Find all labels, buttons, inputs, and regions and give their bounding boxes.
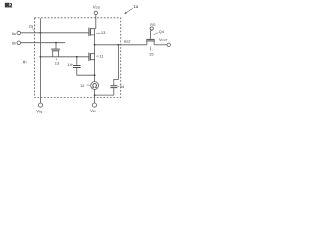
node dot Vbg/rail (40, 56, 42, 58)
svg-text:RG: RG (150, 23, 156, 27)
leader 2a (32, 28, 35, 31)
dashed box (amplifier block boundary) (35, 18, 121, 98)
wire VSS node to terminal (94, 95, 96, 103)
svg-text:15: 15 (149, 52, 154, 57)
leader+label 13 (upper right transistor) (96, 32, 100, 34)
svg-text:14: 14 (67, 62, 72, 67)
VOUT terminal (167, 43, 170, 46)
figure title 図2 (5, 3, 12, 7)
capacitor 34 bottom wire (95, 88, 114, 95)
transistor Q13 channel (89, 28, 91, 35)
svg-text:8b: 8b (12, 42, 16, 46)
RG terminal (150, 27, 153, 30)
output transistor 15: legs (147, 41, 154, 45)
leader+label 11 (96, 55, 99, 57)
arrow leader to label 1a (126, 8, 133, 13)
tilde + label 34 (118, 85, 120, 87)
mos capacitor 13: top plate (51, 48, 60, 50)
svg-text:13: 13 (55, 61, 60, 66)
output wire (net RST) (95, 44, 147, 46)
svg-text:11: 11 (100, 54, 105, 59)
svg-text:1a: 1a (134, 4, 139, 9)
Vbg vertical line (39, 18, 41, 103)
capacitor 14 plates (73, 66, 81, 68)
node dot feedback (118, 44, 120, 46)
mos capacitor 13: legs (53, 51, 59, 57)
wire current source to VSS node (94, 89, 96, 95)
transistor Q11 (lower right): gate bar (88, 53, 90, 61)
input terminal 8b (17, 41, 21, 45)
VDD terminal (94, 11, 97, 14)
node dot cap14 return (94, 74, 96, 76)
transistor Q11 channel (89, 53, 91, 60)
output transistor 15: gate bar (146, 38, 154, 40)
svg-text:RST: RST (124, 40, 131, 44)
node dot wire1/Vbg line (40, 32, 42, 34)
svg-text:Vss: Vss (90, 108, 96, 113)
wire VDD down to Q13 drain (95, 15, 96, 29)
leader for label 13 (55, 58, 57, 60)
svg-text:Vbg: Vbg (36, 109, 42, 114)
main vertical rail (94, 29, 96, 82)
capacitor 34 plates (110, 86, 117, 88)
svg-text:VOUT: VOUT (159, 38, 168, 42)
svg-text:34: 34 (120, 84, 125, 89)
VSS terminal (92, 103, 96, 107)
node dot VSS (94, 94, 96, 96)
svg-text:VDD: VDD (93, 5, 101, 10)
wire input1 to gate of Q13 (21, 32, 89, 34)
wire input2 (21, 42, 65, 44)
arrowhead (124, 12, 127, 14)
mos capacitor 13: channel bar (52, 50, 60, 52)
mos capacitor 13: gate wire (55, 43, 57, 49)
leader+label 12 (87, 84, 90, 86)
VOUT wire (154, 44, 167, 46)
svg-text:12: 12 (80, 83, 85, 88)
small tick mark near left edge (23, 61, 25, 64)
rail (gate line of Q11) (40, 56, 88, 58)
transistor Q13 drain/source stubs (90, 29, 94, 35)
node dot output wire (94, 44, 96, 46)
Vbg terminal (38, 103, 42, 107)
node dot rail/cap14 (76, 56, 78, 58)
wire RG to gate of Q15 (151, 30, 152, 39)
capacitor 14 bottom wire + jog to current source column (77, 68, 95, 75)
leader+label Q4 (154, 33, 159, 35)
svg-text:8a: 8a (12, 32, 16, 36)
current source symbol (omega glyph) (92, 83, 97, 87)
capacitor 14 top wire (76, 57, 78, 65)
input terminal 8a (17, 31, 21, 35)
feedback wire down to C4 (114, 45, 119, 86)
svg-text:13: 13 (101, 30, 106, 35)
leader for label 15 (150, 47, 152, 51)
transistor Q11 stubs (90, 54, 94, 60)
svg-text:Q4: Q4 (159, 30, 164, 34)
output transistor 15: channel (146, 40, 155, 42)
current source 12 circle (91, 82, 99, 90)
svg-text:2a: 2a (29, 23, 34, 28)
node dot wire2/gate of mos-cap 13 (55, 42, 57, 44)
transistor Q13 (upper right): gate bar (88, 28, 90, 37)
